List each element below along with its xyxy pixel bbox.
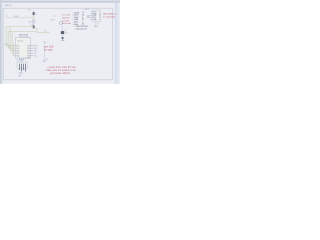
wire U2 ground: [95, 22, 97, 27]
wire drop 3: [10, 27, 15, 51]
left window band: [0, 0, 2, 84]
svg-text:reg 5.0V: reg 5.0V: [62, 17, 70, 20]
wire drop 1: [6, 27, 15, 46]
notes list top-right of middle: [72, 12, 89, 30]
svg-text:i2c addr 0x68: i2c addr 0x68: [103, 15, 116, 18]
wire mid chain: [61, 25, 63, 40]
svg-text:ATmega: ATmega: [18, 40, 24, 43]
svg-text:10u: 10u: [65, 32, 68, 34]
wire bus A: [6, 26, 33, 28]
svg-text:2 4 6: 2 4 6: [19, 72, 23, 74]
resistor R1: [33, 12, 35, 15]
wire U1 to J1: [16, 59, 18, 63]
U2 left pin stubs: [90, 12, 92, 20]
svg-text:1k: 1k: [35, 14, 37, 16]
sheet frame: [3, 8, 112, 80]
ground U2: [94, 25, 98, 27]
U1 right pin stubs: [31, 46, 34, 56]
wire reset horizontal: [7, 14, 34, 18]
wire vertical top-left chain: [33, 11, 35, 29]
svg-text:max 1mA: max 1mA: [62, 22, 71, 25]
svg-text:PD3: PD3: [16, 55, 19, 57]
annotation red bottom: [46, 66, 77, 75]
J1 pins: [19, 64, 25, 72]
svg-text:RESET: RESET: [14, 16, 21, 18]
IC U2 body: [93, 10, 101, 22]
capacitor C5 body: [61, 31, 64, 34]
IC U1 body: [16, 38, 31, 58]
svg-text:• power from main 5V usb: • power from main 5V usb: [47, 66, 76, 69]
transistor Q1: [60, 22, 63, 25]
wire drop 4: [12, 32, 15, 53]
U2 pin numbers: [99, 11, 100, 21]
notes list pin numbers: [82, 12, 85, 26]
wire drop 5: [14, 43, 16, 55]
svg-text:→ 22p C10 C11: → 22p C10 C11: [73, 29, 87, 31]
svg-text:PB5: PB5: [27, 58, 30, 60]
U1 top pins: [20, 36, 28, 38]
U1 right net labels: [34, 45, 39, 57]
connector J1 body: [17, 62, 28, 68]
page background: [0, 0, 120, 84]
svg-text:SCL: SCL: [87, 17, 90, 19]
svg-text:+3V3 V: +3V3 V: [84, 9, 90, 11]
ground mid chain: [61, 40, 65, 42]
svg-text:SCL: SCL: [44, 30, 47, 32]
svg-text:out 3.3V: out 3.3V: [62, 19, 70, 22]
polarized cap C6: [62, 37, 64, 39]
wire bus B: [8, 31, 37, 33]
right scroll stripe: [115, 3, 118, 84]
svg-text:vin 7-12V: vin 7-12V: [62, 15, 71, 17]
svg-text:make sure vin polarity is ok: make sure vin polarity is ok: [46, 69, 77, 72]
switch SW1 body: [33, 25, 35, 28]
annotation red top-mid: [62, 15, 71, 25]
svg-text:C8: C8: [97, 24, 99, 26]
top window band: [0, 0, 120, 2]
svg-text:dwg-set: dwg-set: [4, 4, 12, 7]
svg-text:good state 100mA: good state 100mA: [50, 72, 71, 75]
wire junction to mid: [34, 28, 50, 32]
annotation red mid: [44, 46, 55, 52]
U2 left net labels: [87, 14, 91, 19]
svg-text:RST: RST: [5, 44, 8, 46]
svg-text:MPU-6050 imu: MPU-6050 imu: [103, 13, 117, 15]
svg-text:CN2: CN2: [43, 42, 46, 44]
wire drop 2: [8, 32, 15, 48]
annotation red right: [103, 13, 117, 18]
U1 left pin names: [16, 45, 19, 57]
LED D1: [32, 20, 35, 23]
svg-text:over 10uF: over 10uF: [44, 46, 55, 49]
U2 pin names: [93, 11, 97, 21]
ground mid connector: [43, 60, 46, 62]
svg-text:use caps: use caps: [44, 49, 54, 51]
U1 right pin names: [27, 45, 30, 59]
wire mid connector: [43, 43, 45, 61]
U1 bottom pins: [20, 58, 26, 60]
